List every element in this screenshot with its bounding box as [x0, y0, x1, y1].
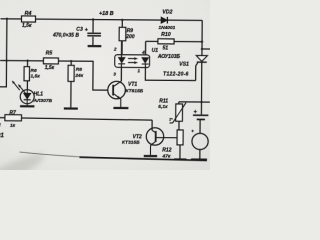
resistor R10 — [146, 32, 204, 52]
svg-text:АЛ307Б: АЛ307Б — [32, 98, 52, 104]
svg-text:1,5к: 1,5к — [30, 73, 40, 79]
svg-text:200: 200 — [125, 34, 135, 40]
svg-text:R11: R11 — [159, 99, 168, 105]
svg-text:HL1: HL1 — [33, 92, 43, 98]
node junction top-left — [6, 18, 8, 20]
svg-text:VS1: VS1 — [179, 62, 189, 68]
svg-text:+: + — [194, 109, 198, 115]
svg-text:5,1к: 5,1к — [158, 104, 168, 110]
wire top +18V rail — [1, 19, 203, 21]
resistor R6 — [24, 61, 40, 90]
node junction left branch crossing — [5, 59, 7, 61]
wire gate of VS1 to optocoupler pin1 — [145, 67, 195, 80]
svg-text:R12: R12 — [162, 147, 171, 153]
wire R7 to VT2 collector — [21, 118, 152, 120]
svg-text:24к: 24к — [74, 73, 83, 79]
svg-text:R6: R6 — [30, 68, 37, 74]
svg-text:+: + — [191, 128, 194, 133]
transistor VT1 KT815B — [108, 81, 144, 108]
svg-text:R10: R10 — [161, 32, 171, 38]
motor M1 — [191, 128, 208, 159]
wire output right edge — [202, 48, 210, 50]
wire right bus lower (VS1 cathode to battery) — [200, 62, 202, 114]
svg-text:VT1: VT1 — [128, 82, 137, 88]
svg-text:КТ815Б: КТ815Б — [126, 88, 144, 94]
transistor VT2 KT315B — [122, 120, 177, 157]
resistor R5 — [43, 51, 58, 72]
node junction R8 top — [70, 60, 72, 62]
battery GB1 — [193, 109, 209, 133]
svg-text:01: 01 — [0, 132, 4, 139]
svg-text:R5: R5 — [46, 51, 53, 57]
svg-text:АОУ103Б: АОУ103Б — [157, 54, 181, 60]
svg-text:1,5к: 1,5к — [45, 65, 55, 71]
svg-text:1,5к: 1,5к — [22, 23, 32, 29]
LED HL1 AL307B — [12, 80, 53, 106]
wire left branch to off-page — [0, 19, 7, 87]
resistor R8 — [64, 61, 84, 109]
svg-text:R7: R7 — [9, 110, 16, 116]
svg-text:2: 2 — [113, 47, 117, 52]
svg-text:КТ315Б: КТ315Б — [122, 140, 140, 146]
svg-text:1N4001: 1N4001 — [158, 25, 175, 31]
resistor R7 — [0, 110, 21, 129]
svg-text:VT2: VT2 — [133, 134, 142, 140]
diode VD2 1N4001 — [158, 9, 175, 31]
svg-text:VD2: VD2 — [162, 9, 172, 15]
thermistor R11 — [158, 99, 210, 131]
wire bottom rail faint left end — [19, 152, 94, 157]
wire middle bus right segment to VT1 base — [58, 61, 108, 90]
svg-text:1к: 1к — [10, 123, 16, 129]
svg-text:Т122-20-6: Т122-20-6 — [163, 72, 189, 78]
wire right bus upper — [201, 20, 203, 55]
svg-text:R8: R8 — [76, 67, 83, 73]
capacitor C3 — [52, 18, 102, 46]
svg-text:51: 51 — [162, 45, 168, 51]
svg-text:R4: R4 — [25, 11, 32, 17]
svg-text:4: 4 — [141, 50, 145, 55]
node junction at output — [201, 48, 203, 50]
wire bottom common rail — [79, 157, 207, 160]
resistor R12 — [161, 130, 186, 160]
wire middle bus (R5 rail) — [0, 60, 43, 62]
svg-text:470,0×35 В: 470,0×35 В — [52, 32, 79, 38]
op-amp U1 optocoupler AOU103B — [113, 41, 181, 82]
thyristor VS1 T122-20-6 — [163, 55, 207, 80]
resistor R9 — [119, 19, 135, 55]
svg-text:+18 В: +18 В — [99, 11, 114, 17]
node junction R6 top — [26, 59, 28, 61]
svg-text:t°: t° — [169, 117, 173, 122]
resistor R4 — [21, 11, 35, 29]
